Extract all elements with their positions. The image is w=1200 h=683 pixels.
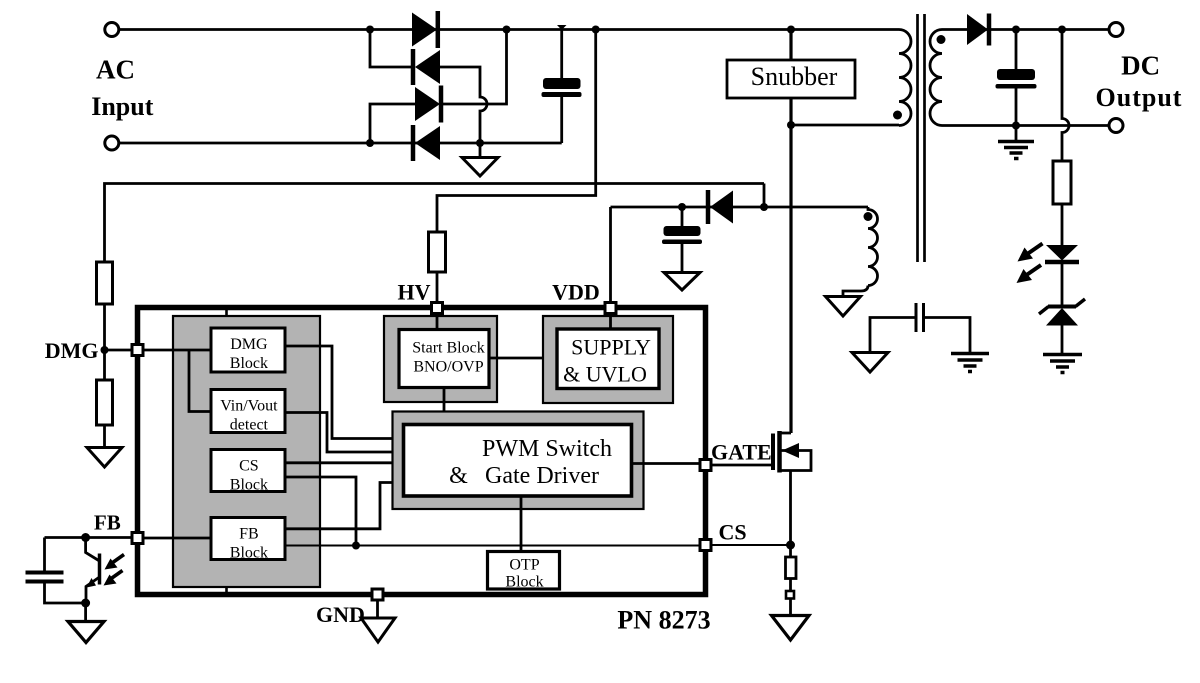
- svg-text:Block: Block: [230, 477, 268, 494]
- node junction CS sense: [786, 541, 795, 550]
- resistor R1: [97, 262, 113, 304]
- wire FB Block to PWM: [285, 483, 404, 529]
- ground bridge: [462, 143, 498, 176]
- svg-text:HV: HV: [398, 280, 431, 305]
- node junction snubber top: [787, 26, 795, 34]
- node junction FB ground: [81, 599, 90, 608]
- node AC line2 terminal: [105, 136, 119, 150]
- wire DMG node to pin: [105, 349, 133, 352]
- svg-text:OTP: OTP: [509, 557, 539, 574]
- block Vin/Vout detect: [211, 390, 285, 434]
- diode D4 bridge: [413, 125, 440, 161]
- node junction divider top: [1058, 26, 1066, 34]
- node primary phase dot: [893, 111, 902, 120]
- wire DMG feed corner: [763, 184, 766, 208]
- wire R4 to LED: [1061, 204, 1064, 245]
- block FB Block: [211, 518, 285, 562]
- svg-text:Block: Block: [230, 355, 268, 372]
- svg-text:PWM Switch: PWM Switch: [482, 436, 612, 462]
- node junction CS net: [352, 542, 360, 550]
- ground aux winding: [826, 297, 861, 317]
- wire DMG pin to DMG Block: [143, 349, 211, 352]
- ground GND pin: [361, 600, 395, 642]
- svg-text:AC: AC: [96, 55, 135, 85]
- svg-text:Block: Block: [505, 574, 543, 591]
- wire bridge left upper branch: [370, 30, 413, 68]
- svg-text:FB: FB: [239, 526, 259, 543]
- svg-text:PN 8273: PN 8273: [617, 606, 710, 635]
- transistor Q2 optocoupler phototransistor: [86, 538, 100, 604]
- wire FB pin to FB Block: [143, 537, 211, 540]
- pin GND: [372, 589, 383, 600]
- svg-text:Start Block: Start Block: [412, 340, 484, 357]
- svg-text:&: &: [449, 463, 468, 489]
- diode D3 bridge: [415, 86, 441, 123]
- wire FB external: [45, 536, 133, 539]
- wire GATE pin to MOSFET: [711, 464, 772, 467]
- ground earth Y-cap secondary: [951, 354, 989, 372]
- transistor Q1 body arrow: [780, 443, 812, 471]
- snubber box: [727, 60, 855, 98]
- svg-text:Snubber: Snubber: [751, 62, 838, 91]
- diode D1 bridge: [412, 11, 438, 48]
- transistor Q1 MOSFET gate bar: [771, 434, 775, 471]
- wire divider with hop over DC-: [1062, 30, 1069, 162]
- wire Start to PWM: [443, 388, 446, 425]
- wire snubber drain line: [789, 30, 792, 434]
- block Supply grey: [543, 316, 673, 403]
- wire DC bus down to HV feed: [437, 30, 596, 233]
- svg-text:GATE: GATE: [711, 440, 772, 465]
- svg-text:DC: DC: [1121, 51, 1160, 81]
- transformer T1 primary winding: [899, 30, 911, 126]
- block PWM Switch & Gate Driver: [404, 425, 632, 497]
- wire PWM to OTP: [520, 496, 523, 550]
- wire R1 to DMG node: [103, 304, 106, 380]
- wire PWM to GATE pin: [632, 462, 701, 465]
- svg-text:CS: CS: [719, 520, 747, 545]
- pin FB: [132, 533, 143, 544]
- capacitor C5 Y-cap: [870, 303, 970, 353]
- wire CS Block to CS net: [285, 477, 356, 546]
- node junction DC bus: [592, 26, 600, 34]
- capacitor C4 FB: [26, 538, 86, 604]
- wire CS pin to sense: [711, 544, 791, 546]
- diode D5 output: [967, 14, 989, 46]
- wire D3 output up: [441, 30, 507, 105]
- svg-text:CS: CS: [239, 458, 259, 475]
- ground VDD cap: [664, 273, 700, 291]
- capacitor C3 output: [996, 30, 1037, 126]
- node junction DMG line to diode: [760, 203, 768, 211]
- wire R3 to HV pin: [436, 272, 439, 303]
- transistor Q1 channel bar: [777, 431, 782, 473]
- svg-text:Gate Driver: Gate Driver: [485, 463, 599, 489]
- wire D2 output down with hop: [440, 67, 487, 143]
- block DMG Block: [211, 328, 285, 372]
- wire AC top line: [119, 28, 899, 31]
- LED D7 optocoupler: [1045, 245, 1079, 306]
- svg-text:detect: detect: [230, 417, 269, 434]
- block Start Block BNO/OVP: [399, 330, 489, 388]
- svg-text:FB: FB: [94, 511, 121, 535]
- node secondary phase dot: [937, 35, 946, 44]
- block SUPPLY & UVLO: [557, 329, 659, 389]
- LED emission arrow 1: [1018, 244, 1043, 262]
- block OTP Block: [488, 552, 560, 591]
- diode D2 bridge: [413, 49, 440, 85]
- wire panel top stub: [225, 309, 228, 316]
- wire secondary bottom: [942, 124, 1109, 127]
- wire VDD pin stub: [609, 310, 612, 328]
- wire HV pin stub: [436, 310, 439, 330]
- ground FB: [68, 603, 104, 643]
- diode D6 VDD: [708, 190, 733, 224]
- ground CS sense: [772, 599, 810, 641]
- ground DMG divider: [87, 448, 122, 468]
- light arrow 1: [105, 555, 125, 570]
- wire R2 to ground: [103, 425, 106, 447]
- node junction D3-top: [503, 26, 511, 34]
- wire CS Block to PWM: [285, 461, 404, 464]
- transistor Q1 drain lead: [780, 432, 792, 435]
- block CS Block: [211, 450, 285, 494]
- wire bridge left lower branch: [370, 104, 415, 143]
- node junction D2-gnd: [476, 139, 484, 147]
- wire Vin/Vout to PWM: [285, 413, 404, 453]
- svg-text:Vin/Vout: Vin/Vout: [220, 398, 278, 415]
- wire panel bottom stub: [225, 587, 228, 593]
- wire VDD aux feed: [611, 206, 869, 209]
- svg-text:DMG: DMG: [230, 336, 268, 353]
- node junction top-left: [366, 26, 374, 34]
- wire AC bottom line: [119, 142, 562, 145]
- svg-text:DMG: DMG: [45, 338, 99, 363]
- svg-text:SUPPLY: SUPPLY: [571, 335, 651, 360]
- svg-text:Output: Output: [1096, 83, 1183, 112]
- resistor R2: [97, 380, 113, 425]
- svg-text:BNO/OVP: BNO/OVP: [413, 359, 483, 376]
- capacitor C2 VDD: [662, 207, 702, 272]
- node DC- terminal: [1109, 119, 1123, 133]
- wire DMG Block to PWM: [285, 346, 404, 439]
- wire CS net: [285, 545, 700, 547]
- light arrow 2: [104, 571, 123, 586]
- wire secondary top: [942, 28, 1109, 31]
- LED emission arrow 2: [1017, 265, 1042, 283]
- wire primary bottom: [791, 124, 899, 127]
- wire DMG sense line: [105, 184, 765, 263]
- capacitor C1 bulk: [542, 25, 582, 143]
- op-amp U1 PN8273 outline: [138, 308, 706, 595]
- block left grey panel: [173, 316, 320, 587]
- svg-text:Input: Input: [91, 92, 153, 121]
- svg-text:GND: GND: [316, 602, 365, 627]
- node DC+ terminal: [1109, 23, 1123, 37]
- node junction FB: [81, 533, 90, 542]
- pin HV: [432, 303, 443, 314]
- pin CS: [700, 540, 711, 551]
- node junction bottom-left: [366, 139, 374, 147]
- zener D8: [1039, 299, 1085, 354]
- node aux phase dot: [864, 212, 873, 221]
- block Start grey: [384, 316, 497, 402]
- node junction VDD cap: [678, 203, 686, 211]
- block PWM grey: [393, 412, 644, 510]
- transformer T1 core: [918, 14, 925, 262]
- node junction output cap top: [1012, 26, 1020, 34]
- node AC line1 terminal: [105, 23, 119, 37]
- svg-text:Block: Block: [230, 545, 268, 562]
- node junction snubber bottom: [787, 121, 795, 129]
- svg-text:& UVLO: & UVLO: [563, 362, 647, 387]
- transistor Q1 source lead: [789, 471, 792, 546]
- ground earth below output cap: [998, 126, 1034, 159]
- node test point square: [786, 591, 794, 599]
- pin VDD: [605, 303, 616, 314]
- pin GATE: [700, 460, 711, 471]
- ground Y-cap primary: [852, 353, 888, 373]
- transformer T1 aux winding: [843, 207, 878, 297]
- node junction output cap bottom: [1012, 122, 1020, 130]
- wire DMG branch to Vin/Vout: [189, 350, 211, 412]
- resistor R5 CS sense: [786, 545, 797, 591]
- node DMG: [101, 346, 109, 354]
- resistor R3 HV: [429, 232, 446, 272]
- ground earth below zener: [1043, 355, 1082, 373]
- transformer T1 secondary winding: [930, 30, 942, 126]
- pin DMG: [132, 345, 143, 356]
- svg-text:VDD: VDD: [552, 280, 600, 305]
- wire Start to Supply: [489, 357, 557, 360]
- wire VDD pin drop: [609, 207, 612, 303]
- resistor R4: [1053, 161, 1071, 204]
